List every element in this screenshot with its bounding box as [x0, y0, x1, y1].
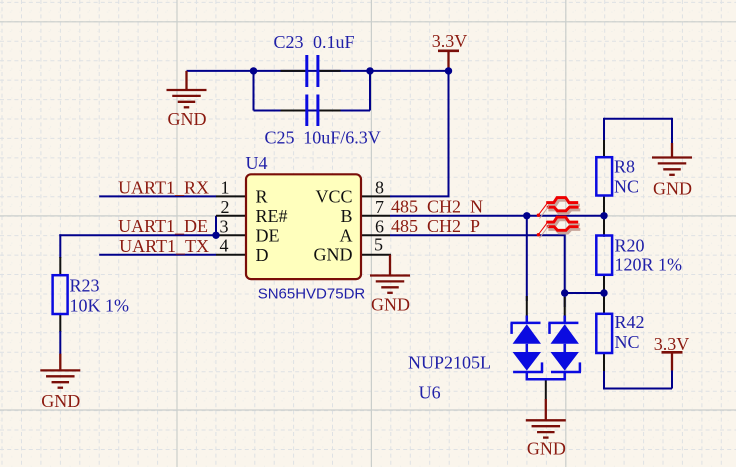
wire P drop to right diode	[564, 234, 566, 307]
junction cap rail left	[250, 67, 257, 74]
U6 ground stem	[545, 399, 547, 420]
wire decoupling top rail	[187, 70, 449, 72]
wire R42 bottom vertical	[603, 370, 605, 390]
wire 3.3V rail vertical	[448, 71, 450, 196]
svg-text:10uF/6.3V: 10uF/6.3V	[303, 128, 381, 148]
svg-text:A: A	[340, 225, 353, 245]
U4 pin 3 stub	[216, 234, 246, 236]
svg-text:6: 6	[375, 216, 384, 236]
svg-text:D: D	[256, 245, 269, 265]
svg-text:485 CH2 P: 485 CH2 P	[391, 216, 480, 236]
svg-text:UART1_DE: UART1_DE	[118, 216, 208, 236]
svg-text:8: 8	[375, 177, 384, 197]
ground decoupling stem	[185, 71, 187, 90]
svg-text:RE#: RE#	[256, 206, 288, 226]
svg-text:GND: GND	[371, 295, 410, 315]
U6 ground pin	[545, 380, 547, 400]
svg-text:VCC: VCC	[315, 186, 352, 206]
R23 ground bars	[40, 370, 80, 387]
power 3.3V bottom bar	[662, 351, 683, 354]
U6 bottom bracket	[527, 378, 565, 381]
svg-text:5: 5	[374, 235, 383, 255]
wire UART1_DE horizontal	[59, 234, 216, 236]
svg-text:485 CH2 N: 485 CH2 N	[391, 196, 483, 216]
svg-text:1: 1	[221, 177, 230, 197]
svg-text:SN65HVD75DR: SN65HVD75DR	[258, 285, 366, 302]
svg-text:NC: NC	[614, 176, 639, 196]
R8 top pin	[603, 140, 605, 158]
svg-text:3.3V: 3.3V	[654, 334, 690, 354]
R20 top pin	[603, 216, 605, 237]
wire VCC pin8 to rail	[390, 195, 450, 197]
wire net 485_CH2_N	[390, 215, 604, 217]
wire bottom 3.3V stem lower	[671, 370, 673, 389]
R23 bottom pin	[59, 314, 61, 332]
svg-text:0.1uF: 0.1uF	[313, 32, 355, 52]
junction RE#-DE	[212, 232, 219, 239]
svg-text:B: B	[340, 206, 352, 226]
svg-text:U4: U4	[246, 153, 268, 173]
svg-text:GND: GND	[168, 109, 207, 129]
R42 top pin	[603, 293, 605, 314]
svg-text:120R 1%: 120R 1%	[615, 254, 683, 274]
resistor R8 body	[596, 157, 612, 195]
differential pair directive on 485_CH2_N	[537, 198, 581, 219]
resistor R42 body	[596, 314, 612, 353]
R42 bottom pin	[603, 353, 605, 371]
power 3.3V top bar	[438, 49, 459, 52]
wire R8 top horizontal	[604, 118, 672, 120]
resistor R23 body	[53, 275, 68, 314]
R8 ground stem	[671, 143, 673, 158]
svg-text:R8: R8	[614, 157, 635, 177]
wire UART1_RX	[99, 195, 216, 197]
wire N drop to left diode	[526, 216, 528, 301]
U4 pin 1 stub	[216, 195, 246, 197]
svg-text:GND: GND	[527, 438, 566, 458]
R8 ground bars	[652, 158, 692, 175]
U4 pin5 ground corner	[389, 255, 391, 276]
capacitor C23 left pin	[281, 70, 306, 72]
svg-text:GND: GND	[41, 391, 80, 411]
junction R20/R42 link	[600, 289, 607, 296]
svg-text:2: 2	[221, 197, 230, 217]
wire net 485_CH2_P	[390, 234, 565, 236]
U4 pin 7 stub	[361, 215, 390, 217]
svg-text:R: R	[256, 187, 268, 207]
svg-text:7: 7	[375, 197, 384, 217]
junction cap rail right	[366, 67, 373, 74]
svg-text:10K 1%: 10K 1%	[70, 296, 130, 316]
wire UART1_TX	[99, 254, 216, 256]
svg-text:R20: R20	[615, 236, 645, 256]
capacitor C23 plates	[307, 55, 318, 87]
power 3.3V bottom stem	[671, 352, 673, 370]
wire R23 to ground	[59, 331, 61, 354]
power 3.3V top stem	[447, 51, 449, 71]
svg-text:NUP2105L: NUP2105L	[408, 352, 491, 372]
resistor R20 body	[596, 236, 612, 275]
capacitor C25 right pin	[319, 110, 341, 112]
wire termination link	[565, 292, 604, 294]
R23 top pin	[59, 257, 61, 276]
svg-text:R23: R23	[70, 276, 100, 296]
wire cap branch right vertical	[369, 70, 371, 111]
svg-text:3.3V: 3.3V	[432, 31, 468, 51]
svg-text:4: 4	[220, 236, 229, 256]
U6 right diode pin	[564, 297, 566, 318]
U6 left diode pin	[526, 296, 528, 318]
wire R8 gnd drop	[671, 118, 673, 144]
TVS diode U6 left pair	[511, 316, 544, 381]
op-amp U4 body	[246, 174, 361, 279]
svg-text:DE: DE	[256, 226, 280, 246]
svg-text:UART1_TX: UART1_TX	[119, 236, 209, 256]
wire RE#-DE link	[215, 216, 217, 237]
R20 bottom pin	[603, 275, 605, 293]
svg-text:U6: U6	[419, 382, 441, 402]
wire bottom 3.3V horizontal	[604, 388, 672, 390]
U4 pin 8 stub	[361, 195, 390, 197]
U6 ground bars	[526, 420, 566, 437]
junction P link left	[561, 289, 568, 296]
differential pair directive on 485_CH2_P	[537, 217, 581, 238]
svg-text:GND: GND	[314, 245, 353, 265]
svg-text:UART1_RX: UART1_RX	[118, 178, 209, 198]
wire cap branch bottom	[254, 110, 371, 112]
U4 pin 4 stub	[216, 254, 246, 256]
wire cap branch left vertical	[253, 70, 255, 111]
svg-text:GND: GND	[653, 178, 692, 198]
U4 pin 2 stub	[216, 215, 246, 217]
svg-text:NC: NC	[615, 332, 640, 352]
TVS diode U6 right pair	[548, 316, 581, 381]
wire R8 top vertical	[603, 118, 605, 141]
junction 3.3V rail	[445, 67, 452, 74]
svg-text:3: 3	[220, 216, 229, 236]
capacitor C23 right pin	[319, 70, 341, 72]
U4 pin5 ground bars	[370, 276, 410, 293]
capacitor C25 plates	[307, 95, 318, 127]
svg-text:R42: R42	[615, 312, 645, 332]
ground decoupling bars	[167, 90, 207, 107]
junction N to R8/R20	[600, 212, 607, 219]
U4 pin 5 stub	[361, 254, 391, 256]
R23 ground stem	[59, 354, 61, 371]
svg-text:C23: C23	[274, 32, 304, 52]
wire UART1_DE drop to R23	[59, 234, 61, 258]
svg-text:C25: C25	[265, 128, 295, 148]
U4 pin 6 stub	[361, 234, 390, 236]
R8 bottom pin	[603, 196, 605, 216]
junction N to diode	[523, 212, 530, 219]
capacitor C25 left pin	[281, 110, 306, 112]
